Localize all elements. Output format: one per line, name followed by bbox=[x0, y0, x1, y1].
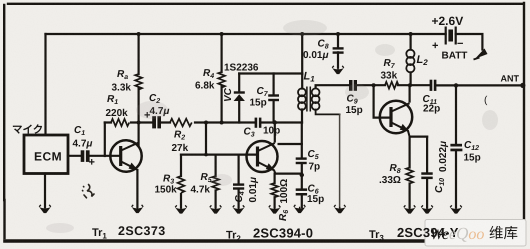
capacitor C4 0.01u plates bbox=[233, 183, 244, 189]
wire C4 column bbox=[238, 155, 240, 208]
wire C5/C6 column bbox=[301, 123, 303, 208]
inductor L1 oscillator transformer bbox=[298, 87, 320, 112]
wire R1 left lead drop to Tr1 base bbox=[104, 123, 106, 157]
wire L1 right winding bottom to ground bbox=[316, 110, 340, 115]
capacitor C6 15p plates bbox=[296, 188, 307, 195]
transistor Tr1 2SC373 bbox=[110, 140, 141, 171]
resistor R8 33ohm bbox=[406, 168, 413, 184]
capacitor C8 0.01u plates bbox=[333, 47, 344, 54]
wire R6 column bbox=[274, 174, 276, 208]
wire Tr1 collector bbox=[138, 123, 140, 146]
battery BATT +2.6V bbox=[446, 27, 456, 45]
resistor R2 27k bbox=[170, 119, 192, 127]
resistor Ra 3.3k bbox=[135, 74, 142, 90]
capacitor C9 15p plates bbox=[349, 80, 357, 91]
resistor R4 6.8k bbox=[218, 72, 225, 88]
scan scribble artifact bbox=[83, 185, 95, 198]
resistor R3 150k bbox=[178, 176, 185, 193]
wire R7 to collector node bbox=[398, 84, 430, 86]
wire L1 right winding top lead to C9 row bbox=[316, 85, 350, 88]
node dot ANT terminal bbox=[520, 83, 525, 88]
resistor R6 100ohm bbox=[271, 183, 278, 197]
capacitor C11 22p plates bbox=[430, 80, 437, 91]
wire top supply rail bbox=[46, 33, 446, 35]
ground R3 bbox=[175, 205, 187, 213]
node dot rail L1 bbox=[300, 32, 304, 36]
node dot C5/C6 emitter junction bbox=[300, 173, 304, 177]
node dot rail L2 bbox=[409, 32, 413, 36]
capacitor C5 7p plates bbox=[296, 157, 307, 164]
node dot Tr3 base bbox=[372, 83, 376, 87]
capacitor C7 15p plates bbox=[268, 94, 279, 101]
wire varactor column bbox=[238, 74, 240, 123]
ground R5 bbox=[210, 205, 222, 213]
wire C9 to Tr3 base node to R7 bbox=[357, 84, 385, 86]
ground C6 bbox=[294, 205, 306, 213]
wire left rail from top rail to ECM box top bbox=[44, 34, 46, 135]
node dot Tr3 collector row bbox=[408, 83, 412, 87]
ground R8 bbox=[404, 205, 416, 213]
capacitor C1 4.7u (electrolytic blob) bbox=[81, 150, 90, 162]
node dot row122 R2 out bbox=[204, 121, 208, 125]
ECM microphone box bbox=[24, 135, 68, 174]
ground C4 bbox=[233, 205, 245, 213]
resistor R5 4.7k bbox=[212, 176, 219, 190]
node dot row122 Ra bbox=[137, 121, 141, 125]
wire C8 column from rail bbox=[337, 34, 339, 68]
capacitor C3 10p plates bbox=[255, 118, 262, 128]
wire R8 column bbox=[409, 137, 411, 208]
wire ECM bottom lead bbox=[44, 174, 46, 208]
wire main signal row y=122 (R1/C2/R2/C3 row) bbox=[105, 121, 302, 123]
wire ECM output to C1 to Tr1 base bbox=[68, 155, 119, 157]
wire L2 column from rail bbox=[410, 34, 412, 85]
wire battery right segment to arrow corner bbox=[456, 34, 483, 50]
transistor Tr3 2SC394-Y bbox=[380, 101, 412, 137]
wire R5 column bbox=[215, 155, 217, 208]
node dot base row R2 bbox=[204, 153, 208, 157]
wire Tr3 emitter node row bbox=[410, 136, 428, 138]
wire R3 column bbox=[180, 155, 182, 208]
wire Tr3 collector stub bbox=[409, 85, 411, 101]
capacitor C2 4.7u (electrolytic blob) bbox=[152, 116, 161, 128]
wire Tr2 collector stub up to tank row bbox=[274, 123, 276, 142]
wire tank top rail y=73.5 bbox=[239, 72, 302, 74]
ground ECM bbox=[39, 205, 51, 213]
wire Tr2 collector side link to C5 column bbox=[279, 143, 302, 145]
node dot rail Ra bbox=[137, 32, 141, 36]
node dot rail C8 bbox=[336, 32, 340, 36]
ground L1 secondary bbox=[334, 205, 346, 213]
wire Tr2 base row y=154.5 bbox=[181, 154, 256, 156]
wire L1 left winding leads bbox=[301, 74, 303, 123]
node dot row122 Tr2 collector bbox=[273, 120, 277, 124]
capacitor C10 0.022u plates bbox=[421, 172, 432, 179]
watermark text bbox=[430, 224, 518, 243]
ground C10 bbox=[421, 205, 433, 213]
wire Tr1 emitter to ground bbox=[136, 170, 138, 207]
ground Tr1 emitter bbox=[132, 205, 144, 213]
capacitor C12 15p plates bbox=[450, 144, 462, 152]
ground C8 bbox=[332, 66, 344, 74]
wire rail drop to L1 top bbox=[301, 34, 303, 74]
resistor R7 33k bbox=[385, 82, 399, 89]
wire R4 column: rail to zigzag to row bbox=[221, 34, 223, 123]
node dot rail R4 bbox=[220, 32, 224, 36]
watermark box bbox=[425, 220, 526, 247]
varactor diode VC 1S2236 bbox=[234, 91, 245, 101]
scan texture bbox=[0, 0, 1, 1]
wire R2 output drop to Tr2 base row bbox=[205, 123, 207, 155]
wire C12 column from ANT row bbox=[455, 85, 457, 207]
ground C12 bbox=[450, 205, 462, 213]
wire C11 to ANT terminal bbox=[436, 84, 523, 86]
wire C10 column bbox=[426, 137, 428, 208]
wire Tr2 emitter row bbox=[276, 173, 302, 175]
transistor Tr2 2SC394-0 bbox=[247, 141, 278, 174]
wire Ra column: rail to zigzag to row bbox=[138, 34, 140, 123]
ground R6 bbox=[269, 205, 281, 213]
wire C7 column bbox=[273, 74, 275, 123]
inductor L2 bbox=[406, 50, 414, 73]
node dot row122 R4 bbox=[220, 121, 224, 125]
battery arrow tap bbox=[475, 49, 488, 59]
resistor R1 220k bbox=[111, 119, 129, 126]
node dot C12 tap bbox=[454, 83, 458, 87]
wire Tr3 base drop bbox=[374, 85, 389, 117]
